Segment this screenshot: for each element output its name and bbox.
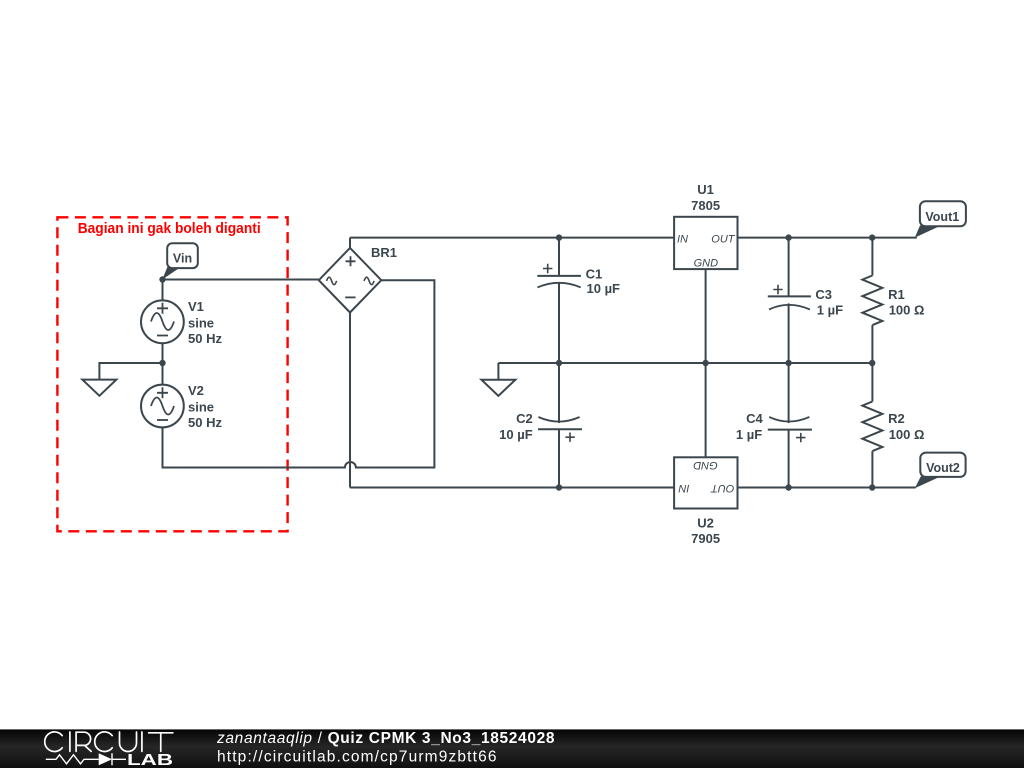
svg-text:C3: C3 <box>815 287 832 302</box>
wire BR1 minus down <box>349 313 351 488</box>
junction positive rail / C1 <box>556 234 562 240</box>
label C4 value <box>736 411 764 442</box>
label U1 value <box>691 182 720 213</box>
svg-text:1 µF: 1 µF <box>817 303 843 318</box>
wire negative rail BR1 to U2 IN <box>350 487 674 489</box>
junction positive out / R1 <box>869 234 875 240</box>
svg-text:GND: GND <box>693 459 718 471</box>
wire U2 OUT to Vout2 <box>738 487 916 489</box>
junction negative rail / C2 <box>556 484 562 490</box>
svg-text:V1: V1 <box>188 299 204 314</box>
svg-text:50 Hz: 50 Hz <box>188 331 222 346</box>
label R2 value <box>888 411 924 442</box>
CircuitLab logo resistor-diode glyph <box>46 753 126 765</box>
svg-text:7905: 7905 <box>691 531 720 546</box>
footer bar <box>0 729 1024 768</box>
middle rail (0V) <box>498 362 872 364</box>
svg-text:sine: sine <box>188 316 214 331</box>
svg-text:LAB: LAB <box>127 752 173 768</box>
junction mid rail / C1-C2 <box>556 360 562 366</box>
junction mid rail / C3-C4 <box>785 360 791 366</box>
capacitor C2 <box>538 363 582 488</box>
junction mid rail / GND pins <box>702 360 708 366</box>
capacitor C3 <box>768 238 811 363</box>
label V2 value <box>188 383 222 430</box>
junction negative out / C4 <box>785 484 791 490</box>
resistor R1 <box>862 238 882 363</box>
svg-text:R2: R2 <box>888 411 905 426</box>
svg-text:R1: R1 <box>888 287 905 302</box>
capacitor C4 <box>768 363 812 488</box>
junction positive out / C3 <box>785 234 791 240</box>
svg-text:U2: U2 <box>697 516 714 531</box>
svg-text:OUT: OUT <box>710 482 735 494</box>
wire positive rail BR1 to U1 IN <box>350 237 674 239</box>
svg-text:zanantaaqlip / Quiz CPMK 3_No3: zanantaaqlip / Quiz CPMK 3_No3_18524028 <box>216 730 555 747</box>
svg-text:Bagian ini gak boleh diganti: Bagian ini gak boleh diganti <box>78 221 261 237</box>
svg-text:10 µF: 10 µF <box>499 427 533 442</box>
svg-text:1 µF: 1 µF <box>736 427 762 442</box>
red annotation box <box>57 217 287 531</box>
svg-text:100 Ω: 100 Ω <box>889 303 925 318</box>
svg-text:Vin: Vin <box>173 252 192 266</box>
label U2 value <box>691 516 720 547</box>
resistor R2 <box>862 363 882 488</box>
ground GND2 <box>481 363 515 396</box>
label C1 value <box>586 267 620 296</box>
svg-text:Vout2: Vout2 <box>926 461 960 475</box>
voltage source V2 <box>141 385 184 428</box>
regulator U2 (rotated 180) <box>674 457 737 508</box>
capacitor C1 <box>537 238 581 363</box>
svg-text:IN: IN <box>678 482 689 494</box>
regulator U1 <box>674 217 737 270</box>
net flag Vout1 <box>915 201 966 237</box>
label V1 value <box>188 299 222 346</box>
wire U1 OUT to Vout1 <box>738 237 917 239</box>
svg-text:C4: C4 <box>746 411 763 426</box>
svg-text:C2: C2 <box>516 411 533 426</box>
svg-text:IN: IN <box>677 234 688 246</box>
CircuitLab logo CIRCUIT <box>45 732 173 752</box>
junction V1-V2 node <box>159 360 165 366</box>
svg-text:7805: 7805 <box>691 198 720 213</box>
svg-text:Vout1: Vout1 <box>925 210 959 224</box>
junction node Vin <box>159 276 165 282</box>
svg-text:C1: C1 <box>586 267 603 282</box>
ground GND1 <box>82 363 162 396</box>
svg-text:V2: V2 <box>188 383 204 398</box>
wire BR1 plus stub <box>349 238 351 248</box>
voltage source V1 <box>141 300 184 343</box>
junction mid rail / R1-R2 <box>869 360 875 366</box>
wire U1 GND to mid rail to U2 GND <box>705 269 707 457</box>
bridge rectifier BR1 <box>319 248 382 313</box>
net flag Vout2 <box>915 453 966 489</box>
net flag Vin <box>162 243 198 279</box>
svg-text:BR1: BR1 <box>371 245 397 260</box>
label C2 value <box>499 411 533 442</box>
svg-text:U1: U1 <box>697 182 714 197</box>
label R1 value <box>888 287 924 318</box>
svg-text:100 Ω: 100 Ω <box>889 427 925 442</box>
svg-text:10 µF: 10 µF <box>587 281 621 296</box>
label C3 value <box>815 287 843 318</box>
svg-text:OUT: OUT <box>711 234 736 246</box>
junction negative out / R2 <box>869 484 875 490</box>
svg-text:http://circuitlab.com/cp7urm9z: http://circuitlab.com/cp7urm9zbtt66 <box>217 749 498 766</box>
svg-text:sine: sine <box>188 399 214 414</box>
svg-text:50 Hz: 50 Hz <box>188 415 222 430</box>
svg-text:GND: GND <box>694 258 719 270</box>
wire Vin node to BR1 AC1 <box>163 279 319 281</box>
wire Vin node down to V1 <box>162 280 164 302</box>
wire V1 to V2 <box>162 343 164 386</box>
wire V2 bottom to BR1 AC2 (with hop over minus wire) <box>163 280 435 467</box>
